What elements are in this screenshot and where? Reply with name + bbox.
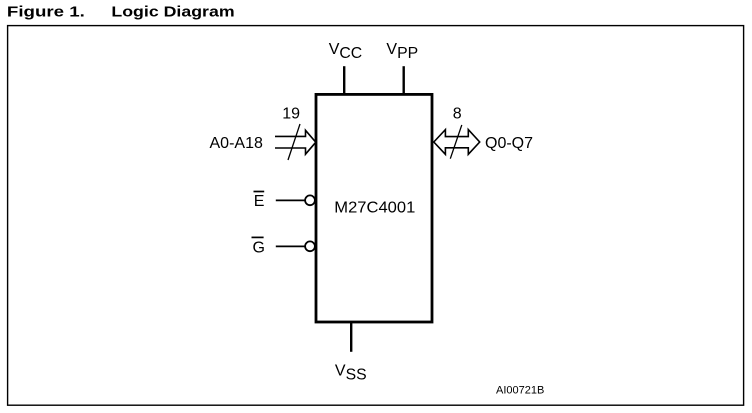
- svg-text:Figure 1.: Figure 1.: [7, 4, 85, 21]
- bus slash Q0-Q7: [450, 125, 462, 159]
- svg-text:A0-A18: A0-A18: [210, 135, 263, 152]
- wire G: [276, 245, 305, 247]
- svg-text:Logic Diagram: Logic Diagram: [111, 4, 234, 21]
- svg-text:Q0-Q7: Q0-Q7: [485, 135, 533, 152]
- inversion bubble E: [305, 195, 315, 205]
- svg-text:M27C4001: M27C4001: [334, 199, 415, 216]
- wire VSS: [350, 322, 352, 352]
- wire VPP: [403, 66, 405, 95]
- svg-text:8: 8: [453, 106, 462, 123]
- svg-text:G: G: [253, 240, 265, 257]
- svg-text:E: E: [254, 193, 265, 210]
- bus arrow A0-A18: [275, 130, 316, 154]
- wire E: [276, 199, 305, 201]
- wire VCC: [343, 66, 345, 95]
- bus arrow Q0-Q7 (bidirectional): [434, 130, 480, 155]
- inversion bubble G: [305, 241, 315, 251]
- svg-text:AI00721B: AI00721B: [496, 384, 544, 396]
- chip M27C4001 body: [316, 94, 432, 322]
- svg-text:19: 19: [282, 106, 300, 123]
- bus slash A0-A18: [288, 124, 300, 160]
